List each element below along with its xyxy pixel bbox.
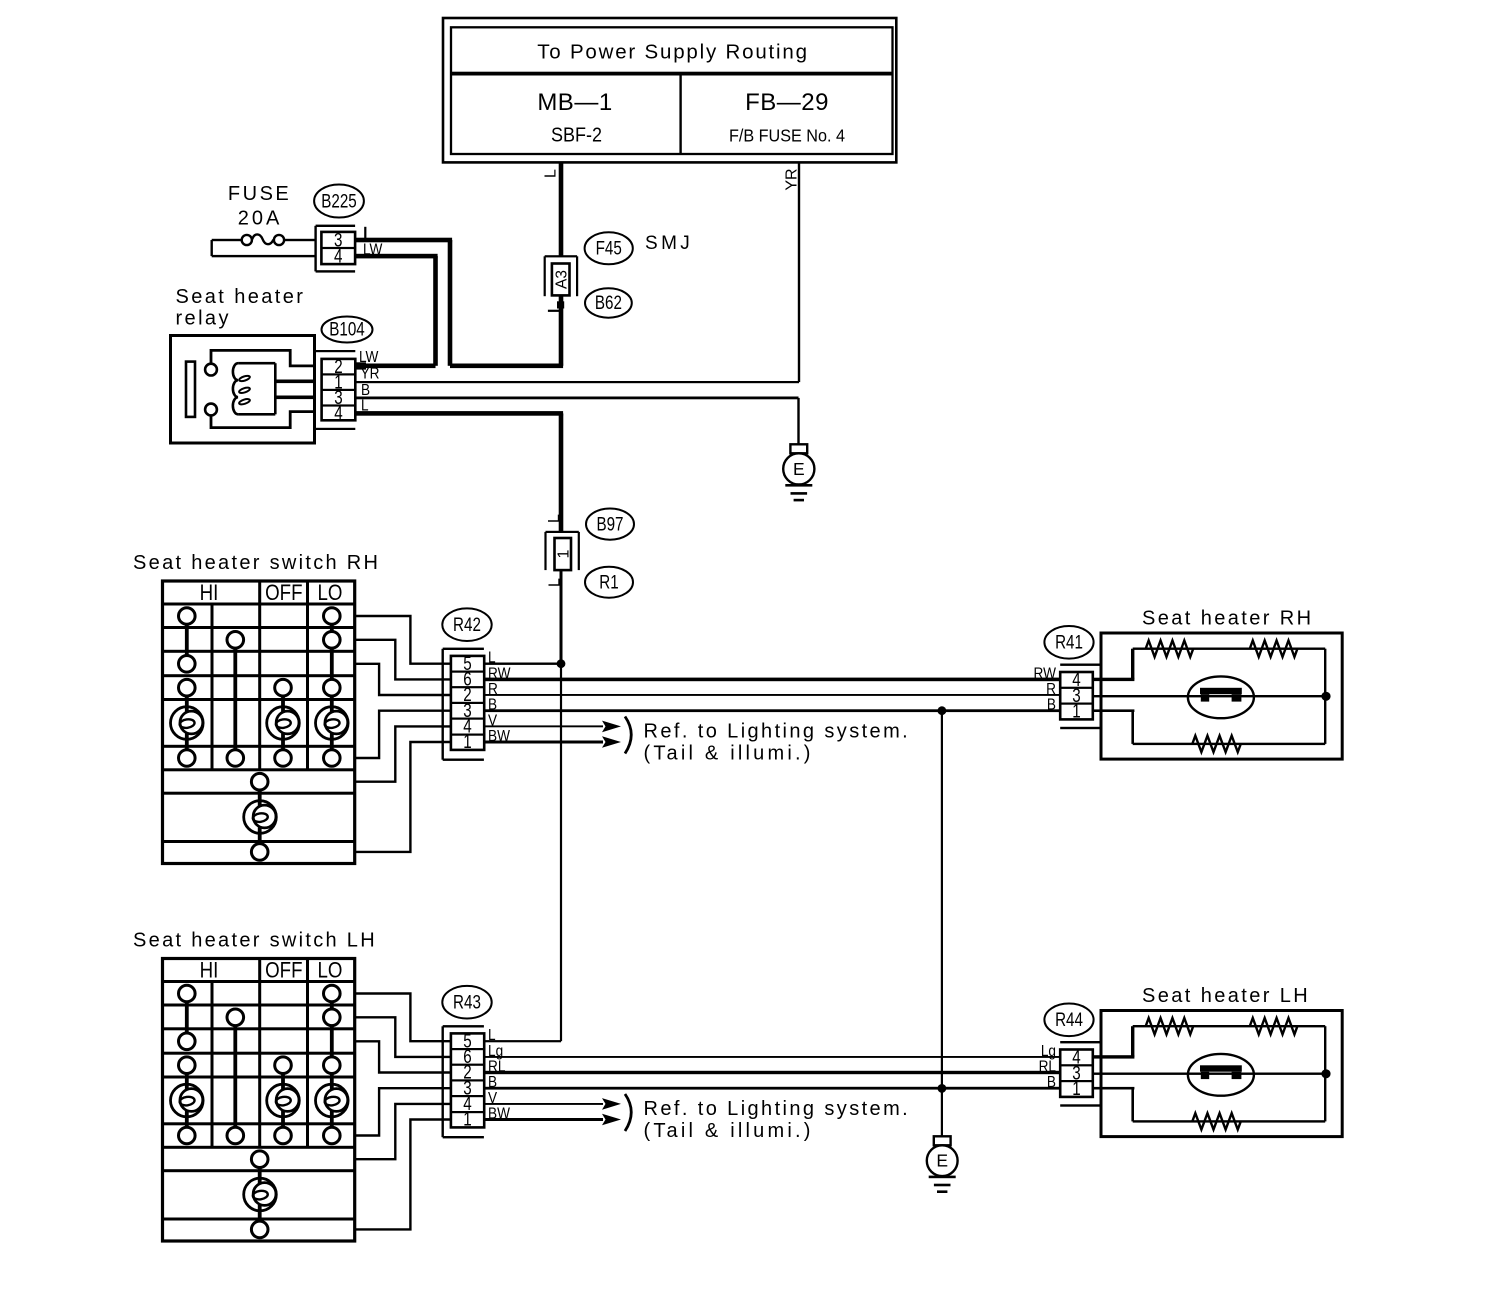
wire V from R43 pin 4 to lighting system (484, 1103, 603, 1105)
heater LH resistor bottom (1192, 1113, 1240, 1129)
svg-text:F/B FUSE No. 4: F/B FUSE No. 4 (729, 126, 845, 146)
seat heater RH box (1101, 633, 1342, 759)
heater LH resistor top-right (1250, 1018, 1298, 1034)
wire V from R42 pin 4 to lighting system (484, 725, 603, 727)
wire switch LH lamp row to R43 pin 4 (355, 1104, 451, 1159)
svg-text:Seat heater switch RH: Seat heater switch RH (133, 552, 380, 574)
svg-text:(Tail & illumi.): (Tail & illumi.) (644, 1120, 814, 1142)
relay box (171, 336, 315, 444)
svg-text:relay: relay (176, 308, 231, 330)
heater RH resistor top-right (1250, 641, 1298, 657)
wire switch RH row3 to R42 pin 2 (355, 664, 451, 695)
wire Lg from R43 pin 6 to R44 pin 4 (484, 1056, 1061, 1058)
wire switch RH lamp row to R42 pin 1 (355, 742, 451, 852)
switch RH OFF contact chain (275, 679, 292, 696)
wire B junction vertical to ground (lower) (941, 711, 943, 1089)
svg-text:R42: R42 (453, 613, 481, 635)
switch RH HI heater contact chain (179, 679, 196, 696)
ground symbol E (upper) (790, 444, 807, 453)
wire LW from B225 pin 4 to relay pin 2 (bold) (355, 254, 438, 259)
svg-text:RL: RL (1039, 1059, 1056, 1076)
svg-text:To Power Supply Routing: To Power Supply Routing (537, 41, 809, 64)
svg-text:HI: HI (200, 582, 219, 606)
svg-text:B225: B225 (321, 190, 356, 212)
switch RH grid column lines (211, 604, 214, 770)
connector B104 bracket (315, 350, 356, 352)
switch LH illumination lamp chain (251, 1151, 268, 1168)
svg-text:SBF-2: SBF-2 (551, 125, 602, 147)
svg-text:B104: B104 (329, 318, 365, 340)
svg-text:E: E (936, 1151, 948, 1171)
relay wire contact to pin 2 (211, 350, 315, 366)
relay coil wire to pin 3 (275, 396, 314, 400)
switch RH grid row lines (163, 603, 355, 606)
heater RH right bus (1324, 649, 1326, 744)
svg-text:Seat heater LH: Seat heater LH (1142, 985, 1310, 1007)
connector designator B62 (585, 288, 632, 317)
connector tick on pin 3 wire (364, 227, 366, 240)
wire YR from relay pin 1 to FB-29 drop (355, 381, 799, 383)
wire switch LH lamp row to R43 pin 1 (355, 1120, 451, 1230)
relay wire contact to pin 4 (211, 412, 315, 428)
svg-text:R43: R43 (453, 991, 481, 1013)
fuse holder return wire (211, 240, 213, 256)
connector B225 bracket (314, 226, 316, 272)
switch LH LO contact chain upper (324, 985, 341, 1002)
switch RH illumination lamp chain (251, 773, 268, 790)
relay contact terminal lower (205, 404, 217, 416)
connector R44 bracket (1060, 1041, 1101, 1043)
svg-text:Seat heater: Seat heater (176, 286, 306, 308)
svg-text:B: B (361, 382, 370, 399)
SMJ connector A3 outer bracket (545, 255, 577, 257)
svg-text:Lg: Lg (1041, 1043, 1056, 1060)
svg-text:4: 4 (334, 402, 343, 424)
svg-text:RW: RW (1034, 666, 1057, 683)
svg-text:B62: B62 (595, 291, 622, 313)
brace for lighting system note RH (625, 717, 631, 754)
connector designator B104 (322, 317, 373, 343)
wire R from R42 pin 2 to R41 pin 3 (484, 694, 1060, 696)
heater RH resistor top-left (1146, 641, 1194, 657)
switch LH LO heater contact chain (324, 1057, 341, 1074)
connector R42 bracket (442, 649, 444, 760)
brace for lighting system note LH (625, 1094, 631, 1131)
heater RH resistor bottom (1192, 736, 1240, 752)
connector designator B97 (586, 508, 634, 539)
joint designator R1 (585, 567, 633, 598)
heater LH right bus (1324, 1026, 1326, 1121)
power supply routing box (inner) (451, 27, 893, 154)
switch LH grid column lines (211, 982, 214, 1148)
svg-text:FB—29: FB—29 (745, 89, 829, 116)
wire switch RH row2 to R42 pin 6 (355, 640, 451, 680)
node heater LH common (1321, 1069, 1330, 1078)
switch LH grid row lines (163, 980, 355, 983)
switch RH HI contact chain 2 (227, 632, 244, 649)
svg-text:Seat heater RH: Seat heater RH (1142, 608, 1313, 630)
ground symbol E (lower) (934, 1136, 951, 1145)
svg-text:YR: YR (784, 168, 801, 190)
wire L from MB-1/SBF-2 down to SMJ A3 (bold) (559, 162, 564, 256)
svg-text:A3: A3 (553, 270, 570, 289)
svg-text:B: B (1047, 1074, 1056, 1091)
wire L junction down to LH switch (560, 664, 562, 1041)
connector R41 bracket (1060, 664, 1101, 666)
wire RL from R43 pin 2 to R44 pin 3 (484, 1071, 1061, 1074)
connector designator B225 (314, 185, 364, 218)
svg-text:1: 1 (1072, 700, 1080, 722)
svg-text:YR: YR (361, 366, 380, 383)
power box column separator (679, 74, 681, 154)
relay coil (233, 363, 238, 414)
svg-text:HI: HI (200, 959, 219, 983)
power box title separator (451, 72, 893, 76)
svg-text:Ref. to Lighting system.: Ref. to Lighting system. (644, 1098, 911, 1120)
svg-text:B97: B97 (596, 513, 623, 535)
switch LH HI contact chain 2 (227, 1009, 244, 1026)
switch RH box (163, 581, 355, 864)
heater RH thermostat branch (1093, 695, 1326, 697)
connector designator F45 (585, 232, 633, 264)
svg-text:1: 1 (463, 1108, 471, 1130)
power supply routing box (outer) (443, 18, 896, 162)
wire L from relay pin 4 (bold) (355, 411, 563, 416)
switch RH LO contact chain upper (324, 608, 341, 625)
svg-text:R44: R44 (1055, 1008, 1083, 1030)
connector R43 bracket (442, 1026, 444, 1137)
node heater RH common (1321, 692, 1330, 701)
switch RH LO heater contact chain (324, 679, 341, 696)
heater RH feed to bottom branch (1093, 709, 1135, 712)
svg-text:OFF: OFF (265, 582, 302, 606)
connector designator R42 (442, 608, 491, 641)
svg-text:R41: R41 (1055, 631, 1083, 653)
svg-text:L: L (488, 1027, 496, 1044)
fuse element (212, 239, 242, 241)
heater LH thermostat (1188, 1054, 1254, 1096)
svg-text:F45: F45 (596, 237, 622, 259)
svg-text:1: 1 (555, 549, 572, 558)
svg-text:OFF: OFF (265, 959, 302, 983)
svg-text:SMJ: SMJ (645, 233, 693, 254)
wire switch LH row2 to R43 pin 6 (355, 1017, 451, 1057)
relay coil wire to pin 1 (275, 380, 314, 384)
connector R44 pin cells (1060, 1050, 1093, 1097)
svg-text:1: 1 (463, 731, 471, 753)
wire switch RH lamp row to R42 pin 4 (355, 726, 451, 781)
wire L from B97 down to junction (560, 570, 563, 664)
relay contact bar (186, 362, 195, 417)
wire L from R42 pin 5 to junction (484, 663, 561, 665)
switch LH box (163, 959, 355, 1242)
svg-text:LO: LO (318, 959, 343, 983)
connector B104 pin cells (322, 359, 356, 420)
svg-text:MB—1: MB—1 (537, 89, 612, 116)
heater RH thermostat (1188, 676, 1254, 718)
connector B225 pin cells (321, 232, 355, 264)
wire switch LH row1 to R43 pin 5 (355, 994, 451, 1042)
svg-text:L: L (543, 169, 560, 178)
seat heater LH box (1101, 1011, 1342, 1137)
svg-text:4: 4 (334, 245, 343, 267)
switch LH OFF contact chain (275, 1057, 292, 1074)
connector R41 pin cells (1060, 672, 1093, 719)
wire switch RH row5 to R42 pin 3 (355, 711, 451, 758)
switch RH HI contact chain 1 (179, 608, 196, 625)
wire switch LH row3 to R43 pin 2 (355, 1041, 451, 1072)
svg-text:R1: R1 (599, 571, 618, 593)
heater LH thermostat branch (1093, 1073, 1326, 1075)
wire YR from FB-29 down (798, 162, 800, 382)
junction node L (557, 659, 566, 668)
connector designator R41 (1044, 626, 1093, 659)
connector designator R43 (442, 986, 491, 1019)
wire BW from R42 pin 1 to lighting system (484, 741, 603, 744)
wire switch RH row1 to R42 pin 5 (355, 616, 451, 664)
relay contact terminal upper (205, 364, 217, 376)
svg-text:E: E (793, 459, 805, 479)
wire B from relay pin 3 to ground E (355, 397, 798, 400)
svg-text:20A: 20A (238, 208, 283, 230)
wire switch LH row5 to R43 pin 3 (355, 1088, 451, 1135)
svg-text:Seat heater switch LH: Seat heater switch LH (133, 930, 377, 952)
svg-text:R: R (1046, 681, 1056, 698)
wire LW from B225 pin 3 to SMJ branch (bold) (355, 238, 452, 243)
connector B97 bracket (546, 531, 579, 533)
heater LH feed to top branch (1093, 1055, 1135, 1058)
svg-text:L: L (546, 514, 563, 523)
switch LH HI heater contact chain (179, 1057, 196, 1074)
connector boundary tick below A3 (548, 310, 561, 312)
connector R43 pin cells (451, 1033, 484, 1127)
wire B from R43 pin 3 to R44 pin 1 (484, 1087, 1061, 1090)
SMJ connector A3 inner box (552, 264, 570, 296)
svg-text:LO: LO (318, 582, 343, 606)
svg-text:1: 1 (1072, 1077, 1080, 1099)
switch LH HI contact chain 1 (179, 985, 196, 1002)
wire RW from R42 pin 6 to R41 pin 4 (484, 678, 1060, 682)
heater LH feed to bottom branch (1093, 1087, 1135, 1090)
connector designator R44 (1044, 1004, 1093, 1037)
svg-text:Ref. to Lighting system.: Ref. to Lighting system. (644, 721, 911, 743)
wire B from R42 pin 3 to R41 pin 1 (484, 709, 1060, 712)
svg-text:(Tail & illumi.): (Tail & illumi.) (644, 742, 814, 764)
connector R42 pin cells (451, 656, 484, 750)
heater LH resistor top-left (1146, 1018, 1194, 1034)
svg-text:B: B (1047, 697, 1056, 714)
heater RH feed to top branch (1093, 678, 1135, 681)
connector B97 pin 1 box (555, 538, 572, 570)
wire BW from R43 pin 1 to lighting system (484, 1118, 603, 1121)
svg-text:FUSE: FUSE (228, 183, 291, 205)
wire L from A3 down (bold) (559, 295, 564, 365)
